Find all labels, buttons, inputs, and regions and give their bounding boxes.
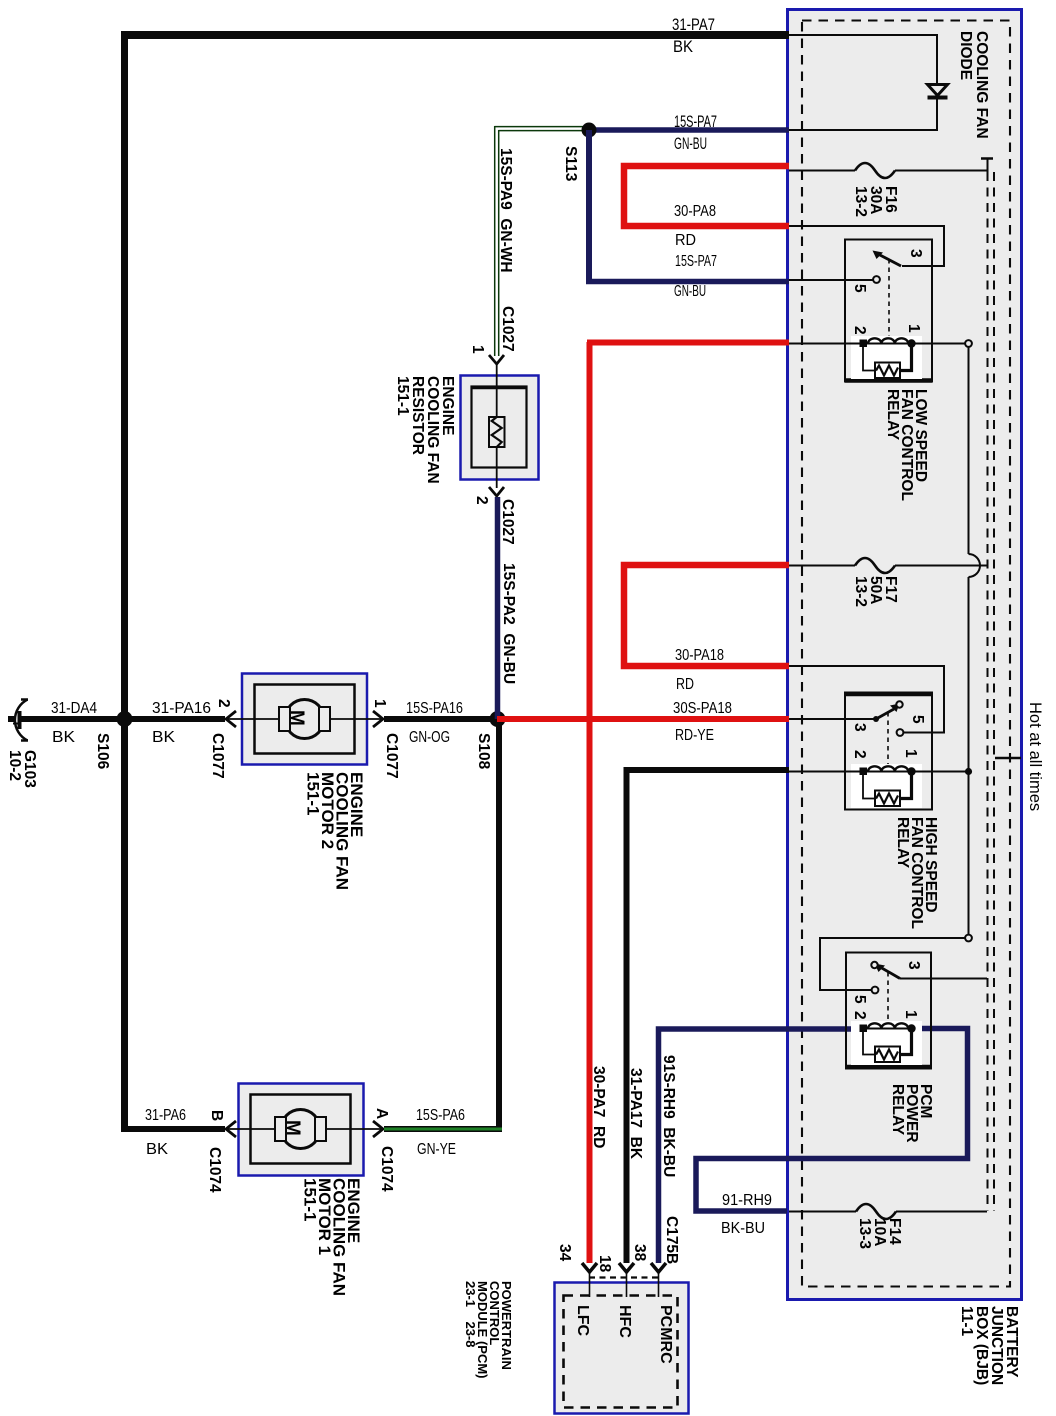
- wire 31-DA4 BK (ground to S106): [21, 716, 121, 722]
- cooling fan diode circuit wiring: [789, 35, 937, 85]
- fuse F17 50A: [789, 565, 855, 567]
- svg-text:18: 18: [596, 1255, 613, 1273]
- low speed fan control relay frame: [845, 240, 932, 382]
- PCM power relay frame: [846, 953, 931, 1069]
- connector C175B pins (dashed link): [589, 1276, 659, 1278]
- svg-text:15S-PA6: 15S-PA6: [416, 1107, 465, 1124]
- svg-text:34: 34: [556, 1244, 573, 1262]
- high speed relay pin 3 feed line: [789, 718, 876, 720]
- connector C1077 pin 1 (right arrow): [373, 711, 383, 727]
- svg-text:11-1: 11-1: [958, 1306, 975, 1337]
- svg-text:2: 2: [851, 1011, 868, 1020]
- svg-text:31-PA16: 31-PA16: [152, 700, 211, 717]
- PCM inner dashed box: [564, 1296, 678, 1408]
- svg-text:30-PA7 RD: 30-PA7 RD: [590, 1066, 607, 1148]
- connector C1074 pin A (right arrow): [373, 1121, 383, 1137]
- fuse F14 10A: [789, 1211, 856, 1213]
- PCM power relay pin 5 feed: [820, 938, 965, 990]
- low speed relay coil backdrop: [851, 336, 922, 379]
- wire hop over fuse F17 line: [969, 554, 981, 577]
- svg-text:C1077: C1077: [383, 733, 400, 779]
- wire: left ground vertical (31-PA7/31-PA16/31-PA6 trunk): [121, 31, 128, 1132]
- wire 31-PA6 BK (trunk to motor 1 pin B): [121, 1126, 225, 1132]
- bus top cap: [981, 157, 993, 160]
- svg-text:S108: S108: [475, 733, 492, 770]
- svg-text:1: 1: [469, 345, 486, 354]
- low speed relay pin 5 contact: [873, 276, 880, 283]
- svg-text:BK-BU: BK-BU: [721, 1220, 765, 1237]
- svg-text:2: 2: [473, 496, 490, 505]
- svg-text:23-1 23-8: 23-1 23-8: [463, 1281, 478, 1348]
- low speed relay link (dashed): [888, 259, 890, 336]
- svg-text:C1074: C1074: [378, 1146, 395, 1192]
- svg-text:RELAY: RELAY: [894, 817, 911, 869]
- svg-text:15S-PA7: 15S-PA7: [674, 112, 717, 131]
- svg-text:30S-PA18: 30S-PA18: [673, 700, 732, 717]
- high speed relay link (dashed): [887, 712, 889, 764]
- PCM power relay suppression resistor: [863, 1032, 875, 1055]
- cooling fan diode: [928, 85, 948, 96]
- svg-text:10-2: 10-2: [6, 750, 23, 781]
- low speed relay coil: [860, 340, 868, 348]
- battery junction box (BJB) outer box: [788, 10, 1022, 1300]
- svg-text:1: 1: [902, 1010, 919, 1019]
- svg-text:2: 2: [851, 750, 868, 759]
- BJB inner dashed boundary: [802, 21, 1010, 1287]
- svg-text:A: A: [373, 1108, 390, 1119]
- svg-text:1: 1: [902, 749, 919, 758]
- svg-text:GN-BU: GN-BU: [674, 134, 707, 153]
- svg-text:PCMRC: PCMRC: [657, 1305, 674, 1364]
- svg-text:RD: RD: [676, 676, 694, 693]
- svg-text:C1027: C1027: [499, 499, 516, 545]
- svg-text:91-RH9: 91-RH9: [722, 1192, 772, 1209]
- connector C1074 pin B (left arrow): [226, 1121, 236, 1137]
- svg-text:C1077: C1077: [209, 733, 226, 779]
- svg-text:HFC: HFC: [616, 1305, 633, 1338]
- svg-text:GN-YE: GN-YE: [417, 1141, 456, 1158]
- wire 15S-PA9 GN-WH (S113 to C1027 pin 1, green-white double line): [495, 126, 590, 128]
- svg-text:RELAY: RELAY: [884, 389, 901, 441]
- powertrain control module (PCM) box: [555, 1283, 689, 1414]
- svg-text:2: 2: [851, 326, 868, 335]
- node S106: [117, 711, 133, 727]
- svg-text:13-2: 13-2: [852, 576, 869, 607]
- high speed relay pin 1 to bus junction: [912, 771, 969, 773]
- ground G103 symbol: [15, 700, 28, 741]
- svg-text:1: 1: [905, 324, 922, 333]
- svg-text:S113: S113: [562, 146, 579, 182]
- connector C1077 pin 2 (left arrow): [226, 711, 236, 727]
- svg-text:3: 3: [905, 961, 922, 970]
- PCM power relay switch arm: [880, 967, 900, 979]
- svg-text:31-PA7: 31-PA7: [672, 15, 715, 34]
- connector C1027 pin 2 (down arrow): [489, 487, 504, 496]
- motor 1 symbol M: [281, 1110, 320, 1149]
- high speed relay coil: [860, 768, 868, 776]
- svg-text:151-1: 151-1: [304, 772, 323, 815]
- low speed relay pin 3 feed: [789, 226, 944, 266]
- wire 30S-PA18 RD-YE (S108 to high speed relay pin 3): [497, 716, 789, 722]
- high speed relay switch arm: [876, 709, 894, 719]
- PCM power relay link (dashed): [887, 972, 889, 1021]
- svg-text:C175B: C175B: [663, 1216, 680, 1264]
- svg-text:C1074: C1074: [206, 1147, 223, 1193]
- high speed fan control relay frame: [845, 693, 932, 810]
- svg-text:31-PA6: 31-PA6: [145, 1107, 186, 1124]
- svg-text:S106: S106: [94, 733, 111, 770]
- svg-text:RELAY: RELAY: [889, 1084, 906, 1136]
- svg-text:91S-RH9 BK-BU: 91S-RH9 BK-BU: [660, 1055, 677, 1177]
- svg-text:5: 5: [851, 995, 868, 1004]
- engine cooling fan resistor box: [461, 376, 539, 480]
- svg-text:151-1: 151-1: [394, 376, 411, 416]
- connector C1027 pin 1 (down arrow): [489, 355, 504, 364]
- motor 2 wire through: [226, 718, 383, 720]
- svg-text:151-1: 151-1: [301, 1178, 320, 1221]
- svg-text:31-DA4: 31-DA4: [51, 700, 97, 717]
- wire 31-PA17 BK (PCM pin 18 to high speed relay coil): [627, 770, 790, 1263]
- svg-text:RD-YE: RD-YE: [675, 727, 714, 744]
- high speed relay coil feed line: [789, 771, 861, 773]
- wire 15S-PA7 GN-BU (S113 drop + lower run to BJB): [586, 130, 592, 279]
- wire 31-PA7 BK (top horizontal): [121, 31, 789, 39]
- wire 30-PA18 RD (fuse F17 loop): [624, 565, 789, 666]
- PCM power relay coil backdrop: [851, 1021, 922, 1065]
- PCM pin 38 arrow: [651, 1263, 666, 1272]
- svg-text:15S-PA2 GN-BU: 15S-PA2 GN-BU: [500, 563, 517, 684]
- svg-text:3: 3: [907, 249, 924, 258]
- svg-text:RD: RD: [675, 232, 696, 249]
- wire 30-PA8 RD (fuse F16 loop): [624, 166, 789, 226]
- hot-at-all-times bus (double dashed line): [987, 172, 989, 1211]
- svg-text:15S-PA9 GN-WH: 15S-PA9 GN-WH: [497, 148, 514, 273]
- low speed relay pin 1 to bus contact: [912, 343, 966, 345]
- svg-text:5: 5: [909, 715, 926, 724]
- high speed relay pin 5 feed: [789, 666, 944, 733]
- node S108: [490, 711, 506, 727]
- bus contact above PCM power relay: [965, 935, 972, 942]
- coil bus (pin 1 junction wire down): [968, 347, 970, 554]
- svg-text:BK: BK: [673, 37, 694, 56]
- svg-text:3: 3: [851, 723, 868, 732]
- svg-text:BK: BK: [52, 729, 76, 746]
- PCM pin 34 arrow: [582, 1263, 597, 1272]
- svg-text:38: 38: [631, 1244, 648, 1262]
- PCM pin 18 arrow: [619, 1263, 634, 1272]
- svg-text:B: B: [208, 1110, 225, 1121]
- svg-text:5: 5: [851, 284, 868, 293]
- resistor element: [496, 364, 498, 417]
- low speed relay coil feed line: [789, 343, 861, 345]
- svg-text:Hot at all times: Hot at all times: [1026, 702, 1044, 811]
- wire 15S-PA6 GN-YE (C1074 pin A to S108 drop, green): [384, 1126, 502, 1132]
- node S113: [582, 123, 597, 138]
- svg-text:2: 2: [215, 699, 232, 708]
- engine cooling fan motor 2 box: [242, 674, 367, 765]
- svg-text:GN-OG: GN-OG: [409, 729, 450, 746]
- PCM power relay pin 3 line to bus: [900, 978, 987, 980]
- svg-text:C1027: C1027: [499, 306, 516, 352]
- svg-text:15S-PA16: 15S-PA16: [406, 700, 463, 717]
- wire 15S-PA16 GN-OG (C1077 to S108): [384, 716, 497, 722]
- engine cooling fan motor 1 box: [239, 1084, 364, 1176]
- wire 15S-PA7 GN-BU (S113 to BJB, upper): [589, 127, 789, 133]
- svg-text:13-2: 13-2: [852, 186, 869, 217]
- fuse F16 30A: [789, 170, 855, 172]
- svg-text:M: M: [282, 1120, 303, 1136]
- svg-text:13-3: 13-3: [856, 1218, 873, 1249]
- wire 15S-PA2 GN-BU (C1027 pin 2 to S108): [495, 497, 501, 719]
- svg-text:30-PA8: 30-PA8: [674, 203, 716, 220]
- svg-text:BK: BK: [152, 729, 176, 746]
- PCM power relay coil: [860, 1025, 868, 1033]
- svg-text:DIODE: DIODE: [957, 31, 974, 80]
- motor 1 wire through: [226, 1128, 383, 1130]
- wire 31-PA16 BK (S106 to C1077): [128, 716, 225, 722]
- svg-text:1: 1: [371, 699, 388, 708]
- wire 91-RH9 BK-BU (PCM power relay pin 1 to fuse F14): [696, 1029, 968, 1212]
- wire 30-PA7 RD (PCM pin 34 to low speed relay coil): [587, 342, 593, 1263]
- svg-text:COOLING FAN: COOLING FAN: [973, 31, 990, 139]
- high speed relay coil backdrop: [851, 764, 922, 808]
- tick from dashed box to Hot at all times label: [995, 757, 1021, 760]
- svg-text:M: M: [286, 710, 307, 726]
- high speed relay suppression resistor: [863, 775, 875, 799]
- svg-text:31-PA17 BK: 31-PA17 BK: [627, 1068, 644, 1160]
- low speed relay suppression resistor: [863, 347, 875, 371]
- svg-text:15S-PA7: 15S-PA7: [675, 253, 717, 270]
- svg-text:30-PA18: 30-PA18: [675, 647, 724, 664]
- svg-text:LFC: LFC: [574, 1305, 591, 1337]
- svg-text:GN-BU: GN-BU: [674, 283, 706, 300]
- wire 91S-RH9 BK-BU (PCM pin 38 to PCM power relay coil): [659, 1029, 864, 1263]
- svg-text:BK: BK: [146, 1141, 169, 1158]
- wire below S108 (to motor 1): [496, 722, 502, 1131]
- motor 2 symbol M: [285, 700, 324, 739]
- low speed relay switch arm: [878, 254, 901, 266]
